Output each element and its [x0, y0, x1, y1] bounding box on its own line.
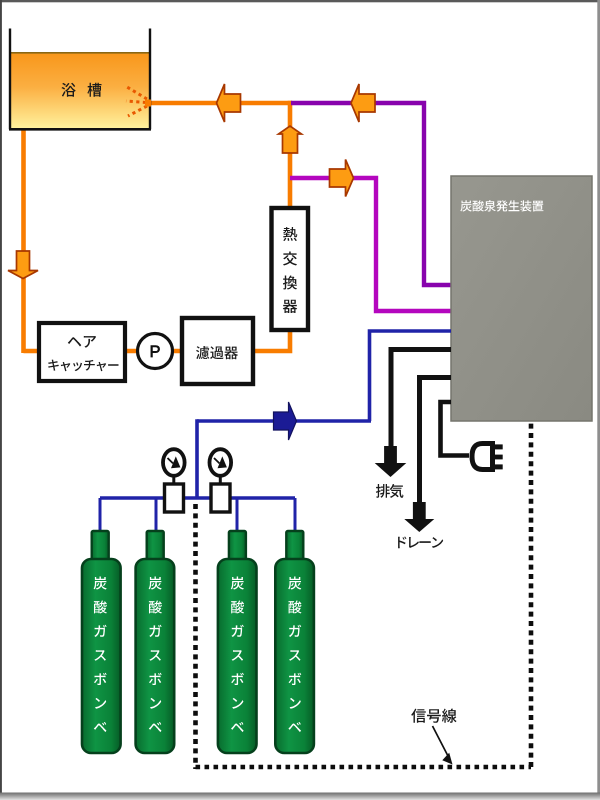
wire: orange suction pipe hair catcher up to bathtub bottom: [24, 129, 38, 353]
gas cylinder 2 炭酸ガスボンベ: [136, 531, 175, 753]
spray nozzle jets inside tub: [126, 87, 151, 116]
gas cylinder 4 炭酸ガスボンベ: [275, 531, 314, 753]
wire: cylinder riser 1: [99, 498, 102, 532]
exhaust label 排気: [376, 484, 404, 498]
drain line from generator: [420, 378, 452, 504]
heat exchanger label 熱交換器 (vertical): [283, 227, 298, 313]
flow arrow right on magenta branch: [330, 160, 354, 197]
signal line dashed horizontal (bottom): [196, 765, 532, 770]
wire: blue manifold across cylinders: [100, 496, 295, 499]
wire: cylinder riser 4: [294, 498, 297, 532]
hair catcher label: [48, 336, 118, 371]
gas cylinder 3 炭酸ガスボンベ: [218, 531, 257, 753]
pump label P: [151, 346, 160, 357]
signal line label 信号線: [411, 709, 456, 723]
pressure regulator 1: [165, 477, 184, 512]
pump P circle: [138, 334, 173, 369]
hair catcher box ヘアキャッチャー: [39, 323, 125, 381]
bathtub label 浴槽: [62, 83, 102, 97]
drain arrow (down): [404, 502, 434, 532]
carbonated water generator unit box: [451, 176, 592, 421]
power cord from generator: [441, 402, 470, 456]
bathtub tank 浴槽: [9, 29, 151, 130]
gas cylinder 1 炭酸ガスボンベ: [82, 531, 121, 753]
filter label 濾過器: [196, 346, 238, 359]
exhaust arrow (down): [375, 446, 407, 477]
signal line dashed vertical (left, from regulators): [193, 504, 198, 769]
flow arrow left (return to tub) on orange pipe: [217, 84, 241, 122]
flow arrow left on purple pipe near junction: [351, 84, 375, 122]
drain label ドレーン: [398, 537, 443, 549]
pressure gauge 1: [163, 449, 185, 476]
wire: orange riser pipe junction down to heat exchanger top: [288, 101, 293, 207]
pressure gauge 2: [210, 449, 232, 476]
heat exchanger box 熱交換器: [272, 208, 309, 330]
wire: blue main riser from manifold: [195, 419, 199, 498]
exhaust line from generator: [391, 350, 451, 448]
wire: blue CO2 pipe into generator (top segment): [370, 331, 452, 421]
flow arrow down on orange suction pipe: [8, 251, 38, 279]
generator label 炭酸泉発生装置: [460, 200, 543, 212]
signal line dashed vertical (right, to generator): [529, 422, 534, 767]
wire: cylinder riser 2: [155, 498, 158, 532]
wire: blue CO2 pipe horizontal run with arrow: [197, 419, 371, 423]
wire: orange return pipe from junction to bathtub spray: [151, 101, 292, 106]
filter box 濾過器: [182, 318, 253, 384]
flow arrow right (blue) on CO2 pipe: [274, 402, 297, 440]
wire: magenta pipe branch from orange riser into generator: [290, 178, 451, 311]
flow arrow up on orange riser: [279, 126, 302, 153]
wire: orange pipe heat exchanger bottom, left to filter / pump / hair catcher: [37, 331, 290, 351]
wire: purple supply pipe top run to generator (right vertical): [291, 103, 451, 285]
pressure regulator 2: [211, 477, 230, 512]
signal line label arrow: [433, 726, 449, 757]
power plug: [472, 444, 503, 470]
wire: cylinder riser 3: [236, 498, 239, 532]
